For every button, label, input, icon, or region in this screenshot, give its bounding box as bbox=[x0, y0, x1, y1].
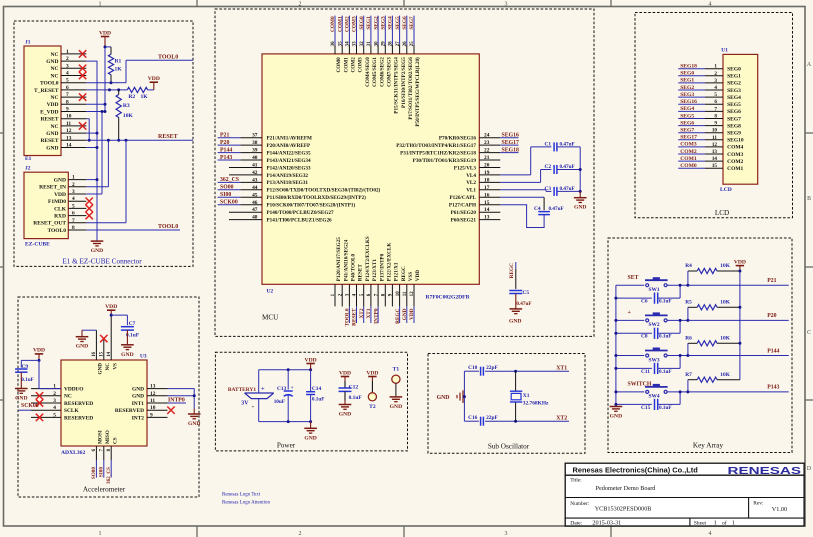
svg-text:P142/ANI20/SEG33: P142/ANI20/SEG33 bbox=[267, 165, 312, 171]
svg-text:E1 & EZ-CUBE Connector: E1 & EZ-CUBE Connector bbox=[62, 258, 142, 266]
svg-text:VDD: VDD bbox=[105, 304, 117, 310]
svg-text:P15/SCK31/INTP1/SEG4: P15/SCK31/INTP1/SEG4 bbox=[394, 57, 400, 114]
svg-text:43: 43 bbox=[252, 177, 258, 183]
svg-text:COM2: COM2 bbox=[345, 16, 351, 32]
svg-text:P21: P21 bbox=[767, 278, 776, 284]
svg-text:P124/XT2/EXCLKS: P124/XT2/EXCLKS bbox=[365, 236, 371, 281]
svg-text:SCLK: SCLK bbox=[64, 408, 79, 414]
svg-text:21: 21 bbox=[484, 155, 490, 161]
svg-text:P30/TI01/TO01/KR3/SEG19: P30/TI01/TO01/KR3/SEG19 bbox=[413, 158, 477, 164]
svg-text:P144: P144 bbox=[767, 348, 779, 354]
svg-text:14: 14 bbox=[712, 156, 718, 162]
svg-text:COM4/SEG0: COM4/SEG0 bbox=[365, 57, 371, 87]
svg-text:SEG10: SEG10 bbox=[727, 138, 744, 144]
svg-text:R6: R6 bbox=[685, 336, 692, 342]
svg-text:Renesas Logo Attention: Renesas Logo Attention bbox=[222, 501, 271, 506]
svg-text:COM1: COM1 bbox=[727, 166, 743, 172]
svg-text:CLK: CLK bbox=[54, 206, 67, 212]
svg-text:37: 37 bbox=[252, 133, 258, 139]
svg-text:9: 9 bbox=[66, 107, 69, 113]
svg-text:3: 3 bbox=[714, 78, 717, 84]
svg-text:1: 1 bbox=[714, 64, 717, 70]
svg-text:3: 3 bbox=[72, 189, 75, 195]
svg-text:COM1: COM1 bbox=[337, 16, 343, 32]
svg-text:J2: J2 bbox=[25, 166, 31, 172]
svg-text:1: 1 bbox=[714, 521, 717, 527]
svg-text:COM6/SEG2: COM6/SEG2 bbox=[379, 57, 385, 87]
svg-text:VDD: VDD bbox=[339, 370, 351, 376]
svg-text:P20: P20 bbox=[220, 140, 229, 146]
svg-text:NC: NC bbox=[51, 66, 59, 72]
svg-text:SEG5: SEG5 bbox=[395, 16, 401, 30]
svg-text:COM3: COM3 bbox=[727, 152, 743, 158]
svg-text:GND: GND bbox=[76, 344, 88, 350]
svg-text:Power: Power bbox=[277, 442, 296, 450]
svg-text:GND: GND bbox=[46, 145, 58, 151]
svg-text:P50/INTP5/SEG/WPCLR(L20): P50/INTP5/SEG/WPCLR(L20) bbox=[414, 57, 421, 127]
svg-text:TOOL0: TOOL0 bbox=[158, 54, 178, 60]
svg-text:P13/ANI18/SEG31: P13/ANI18/SEG31 bbox=[267, 180, 309, 186]
svg-text:4: 4 bbox=[714, 85, 717, 91]
svg-text:0.1uF: 0.1uF bbox=[659, 369, 672, 375]
svg-text:P10/SCK00/TI07/TO07/SEG28/(INT: P10/SCK00/TI07/TO07/SEG28/(INTP1) bbox=[267, 202, 356, 209]
svg-text:SI00: SI00 bbox=[220, 192, 231, 198]
svg-text:VDD: VDD bbox=[33, 348, 45, 354]
svg-text:SEG0: SEG0 bbox=[359, 16, 365, 30]
svg-text:P21/ANI1/AVREFM: P21/ANI1/AVREFM bbox=[267, 136, 313, 142]
svg-text:10: 10 bbox=[150, 405, 156, 411]
svg-text:U2: U2 bbox=[267, 288, 274, 294]
svg-text:5: 5 bbox=[72, 203, 75, 209]
svg-text:GND: GND bbox=[121, 352, 133, 358]
svg-text:3: 3 bbox=[66, 63, 69, 69]
svg-text:SEG4: SEG4 bbox=[680, 106, 694, 112]
svg-text:+: + bbox=[628, 310, 631, 316]
svg-text:RESERVED: RESERVED bbox=[115, 408, 144, 414]
svg-text:6: 6 bbox=[66, 85, 69, 91]
svg-text:SEG4: SEG4 bbox=[388, 16, 394, 30]
svg-text:5: 5 bbox=[53, 412, 56, 418]
svg-text:P143: P143 bbox=[767, 385, 779, 391]
svg-text:XT2: XT2 bbox=[359, 308, 365, 318]
svg-text:LCD: LCD bbox=[720, 187, 732, 193]
svg-text:F1MD0: F1MD0 bbox=[48, 199, 66, 205]
svg-text:GND: GND bbox=[15, 396, 27, 402]
svg-text:+: + bbox=[261, 386, 265, 393]
svg-text:9: 9 bbox=[714, 121, 717, 127]
svg-text:33: 33 bbox=[353, 41, 358, 47]
svg-text:GND: GND bbox=[610, 414, 622, 420]
svg-text:3V: 3V bbox=[241, 401, 249, 407]
svg-text:SW1: SW1 bbox=[648, 287, 659, 293]
svg-text:R2: R2 bbox=[128, 94, 135, 100]
svg-text:C6: C6 bbox=[641, 299, 648, 305]
svg-text:15: 15 bbox=[100, 351, 105, 356]
svg-text:2: 2 bbox=[53, 391, 56, 397]
svg-text:SEG2: SEG2 bbox=[727, 81, 741, 87]
svg-text:C: C bbox=[807, 330, 811, 336]
svg-text:31: 31 bbox=[367, 41, 372, 47]
svg-text:P14/ANI19/SEG32: P14/ANI19/SEG32 bbox=[267, 173, 309, 179]
svg-text:NC: NC bbox=[51, 95, 59, 101]
svg-text:SEG0: SEG0 bbox=[727, 67, 741, 73]
svg-text:GND: GND bbox=[402, 308, 408, 320]
svg-text:V1.00: V1.00 bbox=[772, 506, 787, 513]
svg-text:P41/ANI16/SEG24: P41/ANI16/SEG24 bbox=[343, 239, 349, 281]
svg-text:INT2: INT2 bbox=[132, 415, 145, 421]
svg-text:SCK00: SCK00 bbox=[21, 403, 39, 409]
svg-text:0.1uF: 0.1uF bbox=[126, 333, 140, 339]
svg-text:P122/X2/EXCLK: P122/X2/EXCLK bbox=[387, 243, 393, 282]
svg-text:SEG5: SEG5 bbox=[680, 113, 694, 119]
svg-text:XT2: XT2 bbox=[556, 416, 567, 422]
svg-text:24: 24 bbox=[484, 133, 490, 139]
svg-text:Title:: Title: bbox=[570, 478, 582, 484]
svg-text:15: 15 bbox=[712, 163, 718, 169]
svg-text:46: 46 bbox=[252, 200, 258, 206]
svg-text:P144: P144 bbox=[220, 147, 232, 153]
svg-text:40: 40 bbox=[252, 155, 258, 161]
svg-text:14: 14 bbox=[484, 207, 490, 213]
svg-text:15: 15 bbox=[484, 200, 490, 206]
svg-text:VDD: VDD bbox=[734, 259, 746, 265]
svg-text:1: 1 bbox=[99, 531, 102, 537]
svg-text:Pedometer Demo Board: Pedometer Demo Board bbox=[596, 485, 657, 492]
svg-text:P17/SO31/TI02/TO02/SEG6: P17/SO31/TI02/TO02/SEG6 bbox=[408, 57, 414, 120]
svg-text:COM7/SEG3: COM7/SEG3 bbox=[387, 57, 393, 87]
svg-text:13: 13 bbox=[150, 384, 156, 390]
svg-text:11: 11 bbox=[712, 135, 717, 141]
svg-text:C16: C16 bbox=[468, 415, 478, 421]
svg-text:GND: GND bbox=[437, 395, 450, 401]
svg-text:RESET: RESET bbox=[158, 134, 178, 140]
svg-text:4: 4 bbox=[66, 71, 69, 77]
svg-text:REGC: REGC bbox=[509, 263, 515, 278]
svg-text:P123/XT1: P123/XT1 bbox=[372, 259, 378, 282]
svg-text:3: 3 bbox=[505, 1, 508, 7]
svg-text:REGC: REGC bbox=[401, 266, 407, 281]
svg-text:RESET: RESET bbox=[40, 138, 58, 144]
svg-text:44: 44 bbox=[252, 185, 258, 191]
svg-text:MOSI: MOSI bbox=[98, 430, 104, 444]
svg-text:SEG2: SEG2 bbox=[680, 85, 694, 91]
svg-text:Sheet: Sheet bbox=[694, 521, 707, 527]
svg-text:10K: 10K bbox=[720, 372, 730, 378]
svg-text:VSS: VSS bbox=[408, 272, 414, 282]
svg-text:0.47uF: 0.47uF bbox=[516, 301, 531, 307]
svg-text:P137/INTP0: P137/INTP0 bbox=[379, 253, 385, 281]
svg-text:P20/ANI0/AVREFP: P20/ANI0/AVREFP bbox=[267, 143, 312, 149]
svg-text:1: 1 bbox=[99, 1, 102, 7]
svg-text:SEG6: SEG6 bbox=[727, 109, 741, 115]
svg-text:1: 1 bbox=[66, 49, 69, 55]
svg-text:10K: 10K bbox=[720, 336, 730, 342]
svg-text:X1: X1 bbox=[523, 393, 530, 399]
svg-text:SEG3: SEG3 bbox=[680, 92, 694, 98]
svg-text:22pF: 22pF bbox=[486, 415, 498, 421]
svg-text:R1: R1 bbox=[115, 59, 122, 65]
svg-text:22pF: 22pF bbox=[486, 365, 498, 371]
svg-text:NC: NC bbox=[64, 394, 72, 400]
svg-text:8: 8 bbox=[714, 114, 717, 120]
svg-text:28: 28 bbox=[389, 41, 394, 47]
svg-text:C8: C8 bbox=[641, 334, 648, 340]
svg-text:T_RESET: T_RESET bbox=[34, 88, 59, 94]
svg-text:SEG3: SEG3 bbox=[381, 16, 387, 30]
svg-text:1: 1 bbox=[732, 521, 735, 527]
svg-text:GND: GND bbox=[54, 178, 66, 184]
svg-text:TOOL0: TOOL0 bbox=[40, 81, 59, 87]
svg-text:Renesas Electronics(China) Co.: Renesas Electronics(China) Co.,Ltd bbox=[573, 466, 699, 475]
svg-text:SEG17: SEG17 bbox=[680, 135, 697, 141]
svg-text:RESET: RESET bbox=[40, 117, 58, 123]
svg-text:VDD: VDD bbox=[47, 102, 59, 108]
svg-text:SW2: SW2 bbox=[648, 322, 659, 328]
svg-text:RENESAS: RENESAS bbox=[728, 466, 802, 477]
svg-text:12: 12 bbox=[150, 391, 156, 397]
svg-text:0.1uF: 0.1uF bbox=[659, 405, 672, 411]
svg-text:38: 38 bbox=[252, 140, 258, 146]
svg-text:VDDI/O: VDDI/O bbox=[64, 387, 83, 393]
svg-text:7: 7 bbox=[72, 218, 75, 224]
svg-text:P143: P143 bbox=[220, 155, 232, 161]
svg-text:SEG6: SEG6 bbox=[402, 16, 408, 30]
svg-text:2: 2 bbox=[66, 56, 69, 62]
svg-text:C4: C4 bbox=[534, 206, 541, 212]
svg-text:P31/INTP5/RTC1HZ/KR2/SEG18: P31/INTP5/RTC1HZ/KR2/SEG18 bbox=[400, 150, 476, 156]
svg-text:2: 2 bbox=[299, 1, 302, 7]
svg-text:GND: GND bbox=[390, 404, 402, 410]
svg-text:SEG18: SEG18 bbox=[680, 64, 697, 70]
svg-text:VDD: VDD bbox=[54, 192, 66, 198]
svg-text:9: 9 bbox=[150, 412, 153, 418]
svg-text:Accelerometer: Accelerometer bbox=[83, 486, 126, 494]
svg-text:VDD: VDD bbox=[148, 76, 160, 82]
svg-text:RESET_IN: RESET_IN bbox=[39, 185, 66, 191]
svg-text:34: 34 bbox=[346, 41, 351, 47]
svg-text:SEG3: SEG3 bbox=[727, 88, 741, 94]
svg-text:6: 6 bbox=[714, 99, 717, 105]
svg-text:P20: P20 bbox=[767, 313, 776, 319]
svg-text:MCU: MCU bbox=[262, 314, 279, 322]
svg-text:XT1: XT1 bbox=[556, 366, 567, 372]
svg-text:COM0: COM0 bbox=[330, 16, 336, 32]
svg-text:R5: R5 bbox=[685, 300, 692, 306]
svg-text:VL1: VL1 bbox=[466, 188, 476, 194]
svg-text:U3: U3 bbox=[140, 353, 147, 359]
svg-text:VDD: VDD bbox=[409, 308, 415, 320]
svg-text:P21: P21 bbox=[220, 133, 229, 139]
svg-text:GND: GND bbox=[98, 363, 104, 375]
svg-text:C13: C13 bbox=[277, 386, 287, 392]
svg-text:C3: C3 bbox=[545, 186, 552, 192]
svg-text:SEG17: SEG17 bbox=[502, 140, 519, 146]
svg-text:22: 22 bbox=[484, 148, 490, 154]
svg-text:P141/TI00/PCLBUZ1/SEG26: P141/TI00/PCLBUZ1/SEG26 bbox=[267, 217, 333, 223]
svg-text:35: 35 bbox=[338, 41, 343, 47]
svg-text:47: 47 bbox=[252, 207, 258, 213]
svg-text:12: 12 bbox=[712, 142, 718, 148]
svg-text:27: 27 bbox=[396, 41, 401, 47]
svg-text:R7F0C002G2DFB: R7F0C002G2DFB bbox=[426, 295, 470, 301]
svg-text:32.768KHz: 32.768KHz bbox=[523, 401, 549, 407]
svg-text:J1: J1 bbox=[25, 40, 31, 46]
svg-text:11: 11 bbox=[150, 398, 155, 404]
svg-text:0.1uF: 0.1uF bbox=[349, 395, 363, 401]
svg-text:GND: GND bbox=[46, 131, 58, 137]
svg-text:SEG16: SEG16 bbox=[680, 99, 697, 105]
svg-text:P40/TOOL0: P40/TOOL0 bbox=[351, 254, 357, 282]
svg-text:COM3: COM3 bbox=[680, 142, 697, 148]
svg-text:1K: 1K bbox=[115, 67, 123, 73]
svg-text:2: 2 bbox=[299, 531, 302, 537]
svg-text:0.47uF: 0.47uF bbox=[560, 142, 575, 148]
svg-text:VL4: VL4 bbox=[466, 173, 476, 179]
svg-text:26: 26 bbox=[403, 41, 408, 47]
svg-text:YCB15302PESD000B: YCB15302PESD000B bbox=[595, 506, 652, 513]
svg-text:10K: 10K bbox=[123, 113, 134, 119]
svg-text:RESET: RESET bbox=[352, 308, 358, 326]
svg-text:SWITCH: SWITCH bbox=[628, 382, 652, 388]
svg-text:TOOL0: TOOL0 bbox=[345, 308, 351, 326]
svg-text:COM5/SEG1: COM5/SEG1 bbox=[372, 57, 378, 87]
svg-text:T1: T1 bbox=[393, 367, 400, 373]
svg-text:NC: NC bbox=[105, 363, 111, 371]
svg-text:SEG1: SEG1 bbox=[366, 16, 372, 30]
svg-text:0.1uF: 0.1uF bbox=[312, 397, 325, 403]
svg-text:C11: C11 bbox=[641, 369, 650, 375]
svg-text:19: 19 bbox=[484, 170, 490, 176]
svg-text:SEG6: SEG6 bbox=[680, 120, 694, 126]
svg-text:C7: C7 bbox=[129, 321, 136, 327]
svg-text:SEG7: SEG7 bbox=[680, 128, 694, 134]
svg-text:29: 29 bbox=[382, 41, 387, 47]
svg-text:17: 17 bbox=[484, 185, 490, 191]
svg-text:Sub Oscillator: Sub Oscillator bbox=[488, 443, 530, 451]
svg-text:EZ-CUBE: EZ-CUBE bbox=[25, 242, 50, 248]
svg-text:VDD: VDD bbox=[366, 370, 378, 376]
svg-text:ADXL362: ADXL362 bbox=[61, 450, 85, 456]
svg-text:362_CS: 362_CS bbox=[106, 467, 112, 484]
svg-text:Renesas Logo Text: Renesas Logo Text bbox=[222, 493, 261, 498]
svg-text:COM2: COM2 bbox=[727, 159, 743, 165]
svg-text:SCK00: SCK00 bbox=[220, 200, 238, 206]
svg-text:C14: C14 bbox=[312, 386, 322, 392]
svg-text:GND: GND bbox=[46, 59, 58, 65]
svg-text:P121/X1: P121/X1 bbox=[394, 262, 400, 281]
svg-text:BATTERY1: BATTERY1 bbox=[228, 387, 256, 393]
svg-text:E1: E1 bbox=[25, 156, 32, 162]
svg-text:XT1: XT1 bbox=[366, 308, 372, 318]
svg-text:SEG0: SEG0 bbox=[680, 71, 694, 77]
svg-text:10: 10 bbox=[396, 291, 401, 297]
svg-text:SW3: SW3 bbox=[648, 357, 659, 363]
svg-text:0.47uF: 0.47uF bbox=[560, 164, 575, 170]
svg-text:U1: U1 bbox=[721, 47, 728, 53]
svg-text:1K: 1K bbox=[141, 94, 149, 100]
svg-text:10uF: 10uF bbox=[274, 399, 285, 405]
svg-text:SEG18: SEG18 bbox=[502, 147, 519, 153]
svg-text:TOOL0: TOOL0 bbox=[158, 224, 178, 230]
svg-text:GND: GND bbox=[574, 205, 586, 211]
svg-text:SEG8: SEG8 bbox=[727, 123, 741, 129]
svg-text:RESET_OUT: RESET_OUT bbox=[33, 221, 66, 227]
svg-text:48: 48 bbox=[252, 215, 258, 221]
svg-text:MISO: MISO bbox=[105, 430, 111, 444]
svg-text:COM2: COM2 bbox=[680, 149, 697, 155]
svg-text:25: 25 bbox=[410, 41, 415, 47]
svg-text:42: 42 bbox=[252, 170, 258, 176]
svg-text:0.1uF: 0.1uF bbox=[659, 334, 672, 340]
svg-text:C2: C2 bbox=[545, 164, 552, 170]
svg-text:E_VDD: E_VDD bbox=[40, 109, 58, 115]
svg-text:COM0: COM0 bbox=[336, 57, 342, 73]
svg-text:P60/SEG21: P60/SEG21 bbox=[451, 217, 477, 223]
svg-text:CS: CS bbox=[113, 437, 119, 444]
svg-text:0.47uF: 0.47uF bbox=[549, 206, 564, 212]
svg-text:12: 12 bbox=[66, 128, 72, 134]
svg-text:NC: NC bbox=[51, 73, 59, 79]
svg-text:GND: GND bbox=[339, 412, 351, 418]
svg-text:18: 18 bbox=[484, 177, 490, 183]
svg-text:VS: VS bbox=[113, 363, 119, 370]
svg-text:+: + bbox=[291, 385, 294, 391]
svg-text:VL2: VL2 bbox=[466, 180, 476, 186]
svg-text:45: 45 bbox=[252, 192, 258, 198]
svg-text:5: 5 bbox=[66, 78, 69, 84]
svg-text:SEG1: SEG1 bbox=[680, 78, 694, 84]
svg-text:GND: GND bbox=[188, 421, 200, 427]
svg-text:16: 16 bbox=[92, 351, 97, 356]
svg-text:GND: GND bbox=[132, 394, 144, 400]
svg-text:COM1: COM1 bbox=[680, 156, 697, 162]
svg-text:of: of bbox=[722, 520, 727, 527]
svg-text:R4: R4 bbox=[685, 263, 692, 269]
svg-text:13: 13 bbox=[66, 135, 72, 141]
svg-text:10: 10 bbox=[66, 114, 72, 120]
svg-text:T2: T2 bbox=[369, 404, 376, 410]
svg-text:SEG1: SEG1 bbox=[727, 74, 741, 80]
svg-text:R7: R7 bbox=[685, 372, 692, 378]
svg-text:4: 4 bbox=[72, 196, 75, 202]
svg-text:COM1: COM1 bbox=[343, 57, 349, 73]
svg-text:INTP0: INTP0 bbox=[168, 398, 185, 404]
svg-text:COM0: COM0 bbox=[680, 163, 697, 169]
svg-text:C9: C9 bbox=[22, 364, 29, 370]
svg-text:39: 39 bbox=[252, 148, 258, 154]
svg-text:3: 3 bbox=[505, 531, 508, 537]
svg-text:7: 7 bbox=[66, 92, 69, 98]
svg-text:COM4: COM4 bbox=[727, 145, 743, 151]
svg-text:SET: SET bbox=[628, 275, 639, 281]
svg-text:C1: C1 bbox=[545, 142, 552, 148]
svg-text:P12/SO00/TXD0/TOOLTXD/SEG30/(T: P12/SO00/TXD0/TOOLTXD/SEG30/(TI02)/(TO02… bbox=[267, 187, 381, 194]
svg-text:Rev:: Rev: bbox=[753, 500, 764, 506]
svg-text:VDD: VDD bbox=[305, 357, 317, 363]
svg-text:1: 1 bbox=[72, 175, 75, 181]
svg-text:4: 4 bbox=[53, 405, 56, 411]
svg-text:P144/ANI22/SEG35: P144/ANI22/SEG35 bbox=[267, 150, 312, 156]
svg-text:SEG16: SEG16 bbox=[502, 133, 519, 139]
svg-text:SEG7: SEG7 bbox=[727, 116, 741, 122]
svg-text:P11/SI00/RXD0/TOOLRXD/SEG29/(I: P11/SI00/RXD0/TOOLRXD/SEG29/(INTP2) bbox=[267, 194, 367, 201]
svg-text:7: 7 bbox=[714, 106, 717, 112]
svg-text:13: 13 bbox=[712, 149, 718, 155]
svg-text:36: 36 bbox=[331, 41, 336, 47]
svg-text:Number:: Number: bbox=[570, 501, 590, 507]
svg-text:REGC: REGC bbox=[395, 308, 401, 323]
svg-text:14: 14 bbox=[107, 351, 112, 356]
